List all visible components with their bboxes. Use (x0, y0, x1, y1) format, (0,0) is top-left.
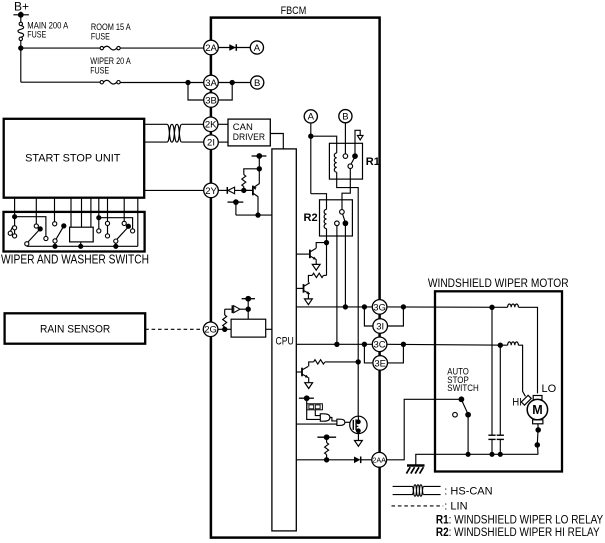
svg-text:2K: 2K (205, 120, 217, 131)
wire Q4 base (296, 371, 302, 373)
level shifter box (2G) (231, 319, 266, 337)
power rail tick (charge pump) (299, 396, 320, 419)
wire 3C/3E loop left (364, 344, 373, 363)
svg-text:3E: 3E (374, 358, 386, 369)
junction (490, 452, 494, 456)
fuse MAIN 200 A (fusible link) (18, 20, 68, 40)
svg-text:HI: HI (512, 397, 522, 409)
relay R2 box (320, 200, 353, 236)
junction (362, 342, 366, 346)
wire node B down to R1 contact (344, 123, 346, 154)
wire CAN-H unit to twist (144, 123, 167, 125)
wire 3G/3I loop right (387, 307, 403, 326)
junction (362, 305, 366, 309)
CPU box (272, 149, 296, 531)
wiper switch blade 2 (53, 224, 66, 246)
svg-text:START STOP UNIT: START STOP UNIT (25, 152, 121, 164)
START STOP UNIT box (4, 119, 145, 198)
resistor R1 (2Y pull-up) (242, 169, 259, 191)
wire Q4 emitter to ground arrow (308, 378, 310, 383)
resistor R5 (2AA) (325, 443, 329, 460)
svg-text:FBCM: FBCM (281, 5, 307, 17)
wire pin 2G to level shifter (218, 328, 231, 330)
wire 2AA to auto stop switch (387, 399, 460, 460)
svg-text:3G: 3G (373, 302, 386, 313)
wire unit to pin 2Y (144, 189, 204, 191)
twisted pair symbol (HS-CAN) (167, 124, 182, 142)
relay R1 common contact (353, 154, 358, 159)
junction (223, 327, 227, 331)
wire pin 2K to CAN driver (218, 123, 228, 125)
chassis ground G1 (406, 466, 424, 474)
wire level shifter to CPU (266, 328, 272, 330)
logic gate G2 (337, 419, 345, 425)
wire choke L2 to HI brush (518, 345, 525, 396)
diode D4 (2AA) (354, 457, 372, 464)
svg-text:R1: R1 (366, 156, 380, 168)
wire A branch to R1 coil (311, 136, 337, 153)
switch contact c2 (13, 226, 17, 230)
pin 3G (372, 300, 387, 315)
ground arrow (MOSFET source) (355, 441, 363, 447)
svg-text:3A: 3A (205, 78, 217, 89)
junction (401, 305, 405, 309)
svg-text:A: A (254, 43, 261, 54)
relay R2 blade (343, 214, 345, 221)
resistor R3 (driver feedback) (308, 273, 326, 282)
junction (257, 167, 261, 171)
wire B+ to main fuse (20, 12, 22, 23)
svg-text:2I: 2I (207, 138, 215, 149)
junction (401, 342, 405, 346)
svg-text:CPU: CPU (276, 335, 294, 347)
wire 3G right to motor choke (387, 306, 508, 308)
wire room fuse to pin 2A (120, 47, 204, 49)
pin 3E (373, 356, 388, 371)
relay R2 NO contact (343, 221, 348, 226)
node B+ (13, 0, 29, 17)
relay R2 NC contact (335, 221, 340, 226)
transistor Q1 (2Y input, PNP) (245, 169, 260, 215)
junction (97, 216, 101, 220)
net wiper drive from CPU (296, 423, 337, 425)
ground arrow (Q2) (312, 264, 320, 270)
intermittent unit box (70, 227, 94, 246)
AUTO STOP SWITCH label (447, 367, 479, 395)
power rail tick (2AA pull-up) (317, 435, 336, 443)
LIN wire (dashed) rain sensor to 2G (145, 328, 203, 330)
diode D2 (2Y input) (227, 187, 234, 194)
junction (79, 244, 83, 248)
switch contacts c9/c10 (105, 221, 109, 238)
wire 3C right to motor choke (387, 343, 508, 346)
svg-text:WIPER AND WASHER SWITCH: WIPER AND WASHER SWITCH (1, 252, 149, 266)
svg-text:RAIN SENSOR: RAIN SENSOR (40, 324, 110, 336)
diode D1 (2A to A) (229, 44, 236, 51)
power rail tick (2Y circuit) (252, 154, 267, 169)
wire pin 2I to CAN driver (218, 141, 228, 143)
wire A to R2 coil (311, 194, 327, 210)
svg-text:M: M (532, 403, 542, 417)
junction (466, 452, 470, 456)
wire pin 2A to diode (218, 47, 250, 49)
MOSFET Q5 (wiper output) (350, 416, 367, 440)
wire Q2 base (296, 253, 310, 255)
wire R2 NO contact to 3G net (344, 226, 346, 307)
junction (325, 458, 329, 462)
junction (242, 188, 246, 192)
pin 2K (203, 117, 218, 132)
power rail tick (below 2Y) (228, 200, 244, 215)
wire 3A/3B parallel loop left (188, 83, 204, 101)
pin 2A (204, 40, 219, 55)
switch contact c4 (34, 224, 38, 228)
wire 3C/3E loop right (387, 344, 403, 363)
junction (309, 134, 313, 138)
wire twist to pin 2I (182, 141, 204, 143)
wire gate1 to gate2 (330, 418, 337, 421)
auto stop switch (453, 397, 471, 454)
RAIN SENSOR box (5, 313, 146, 343)
junction (230, 80, 234, 84)
junction (335, 342, 339, 346)
wire twist to pin 2K (182, 123, 204, 125)
svg-text:3C: 3C (374, 340, 386, 351)
relay R1 fixed contact (343, 154, 348, 159)
junction (256, 213, 260, 217)
svg-text:3I: 3I (376, 321, 384, 332)
parking switch (motor) (535, 424, 540, 455)
relay R1 blade (351, 158, 354, 164)
wire to room fuse (21, 47, 100, 49)
washer switch blade (114, 224, 131, 246)
wire wiper fuse to pin 3A (120, 82, 204, 84)
transistor Q3 (R2 pre-driver) (304, 283, 310, 294)
wire pin 2Y to diode (218, 189, 227, 191)
pin 2AA (372, 452, 387, 467)
svg-text:3B: 3B (205, 95, 217, 106)
CAN driver U1 (228, 119, 270, 146)
fuse WIPER 20 A (90, 56, 131, 84)
junction (498, 343, 502, 347)
switch contact c6 (44, 236, 48, 240)
switch contact c3 (13, 230, 17, 238)
fuse ROOM 15 A (91, 22, 131, 50)
svg-text:FUSE: FUSE (27, 30, 46, 40)
svg-text:R2: R2 (304, 212, 318, 224)
junction (114, 244, 118, 248)
net 3G wire (296, 306, 372, 308)
junction (13, 215, 17, 219)
svg-text:B: B (342, 112, 348, 123)
wiper switch blade 1 (25, 227, 43, 246)
switch contact c11 (122, 221, 126, 225)
wire R1 coil bottom to MOSFET drain (337, 172, 359, 416)
ground arrow (Q4) (305, 383, 313, 389)
junction (246, 307, 250, 311)
svg-text:WINDSHIELD WIPER MOTOR: WINDSHIELD WIPER MOTOR (428, 276, 569, 290)
charge pump box (307, 404, 323, 410)
node A (top) (250, 41, 263, 54)
switch common bus wire (27, 245, 138, 247)
svg-text:: LIN: : LIN (444, 501, 467, 513)
diode D3 (2G clamp) (225, 305, 249, 313)
svg-text:2A: 2A (205, 43, 217, 54)
wire clamp node to level shifter (247, 309, 249, 319)
transistor Q2 (R2 driver) (310, 248, 316, 259)
svg-text:R1: WINDSHIELD WIPER LO RELAY: R1: WINDSHIELD WIPER LO RELAY (436, 514, 604, 526)
wire CAN-L unit to twist (144, 141, 167, 143)
wire R2 NC contact to 3C net (336, 226, 338, 345)
relay R1 NO contact (348, 164, 353, 169)
switch contact c8 (97, 229, 101, 233)
junction (19, 46, 23, 50)
pin 2G (203, 322, 218, 337)
pin 2Y (204, 183, 219, 198)
svg-text:2G: 2G (204, 325, 217, 336)
wires unit to wiper switch (15, 198, 138, 247)
svg-text:LO: LO (542, 383, 557, 395)
net 2AA wire (296, 459, 354, 461)
wire pin 3A to node B (218, 82, 251, 84)
svg-text:: HS-CAN: : HS-CAN (444, 485, 492, 497)
output arrow (wiper feed) (357, 135, 363, 140)
wire to contact c6 (15, 217, 46, 237)
wire main fuse down (20, 41, 22, 83)
svg-text:DRIVER: DRIVER (233, 132, 265, 143)
net 3C wire (296, 343, 372, 345)
wire 3A/3B parallel loop right (218, 83, 232, 101)
motor M1 (521, 395, 547, 424)
WIPER AND WASHER SWITCH box (4, 212, 145, 252)
node A (inner) (304, 110, 317, 123)
ground arrow (Q3) (305, 299, 313, 305)
junction (R2 coil drive) (324, 241, 328, 245)
WINDSHIELD WIPER MOTOR box (435, 291, 562, 471)
wire coil node down to resistor (326, 243, 328, 276)
legend twisted pair symbol (393, 485, 441, 496)
svg-text:R2: WINDSHIELD WIPER HI RELAY: R2: WINDSHIELD WIPER HI RELAY (436, 527, 600, 539)
wire R1 common to output arrow (355, 130, 360, 156)
wire to Q2 collector (316, 243, 326, 249)
choke L1 (LO feed) (508, 304, 519, 307)
wire to wiper fuse (21, 81, 100, 83)
node B (inner) (339, 110, 352, 123)
capacitor C2 (497, 345, 504, 454)
wire gate2 to MOSFET gate (345, 421, 353, 423)
relay R2 common contact (340, 210, 345, 215)
resistor R4 (Q4 collector) (309, 359, 359, 366)
wire R2 coil bottom (326, 229, 328, 243)
pin 2I (204, 135, 219, 150)
wire diode to base node (235, 189, 253, 191)
svg-text:B: B (254, 78, 260, 89)
svg-text:2AA: 2AA (372, 455, 386, 464)
junction (490, 305, 494, 309)
node B (top) (251, 76, 264, 89)
junction (drain net / R4) (356, 360, 360, 364)
wire Q2 emitter to ground arrow (315, 259, 317, 264)
wire CAN driver to CPU (270, 134, 283, 149)
transistor Q4 (R1 driver) (302, 366, 308, 377)
pin 3A (204, 75, 219, 90)
FBCM module box (211, 18, 380, 538)
relay R1 coil (334, 153, 336, 172)
pin 3I (373, 319, 388, 334)
switch contact c5 (53, 222, 57, 226)
wire Q3 base (296, 287, 303, 289)
wire R1 NO contact to R2 common (342, 169, 350, 210)
switch contact c1 (8, 226, 13, 236)
wire motor common to chassis ground (416, 454, 538, 464)
junction (498, 452, 502, 456)
legend LIN dashed wire (392, 505, 444, 507)
svg-text:FUSE: FUSE (90, 66, 109, 76)
svg-text:SWITCH: SWITCH (447, 383, 479, 394)
power rail tick (2G) (242, 296, 255, 309)
wire 3G/3I loop left (364, 307, 373, 326)
wire choke L1 to LO brush (518, 307, 537, 393)
svg-text:2Y: 2Y (205, 186, 217, 197)
wire Q3 emitter to ground arrow (307, 294, 309, 299)
svg-text:FUSE: FUSE (91, 32, 110, 42)
logic gate G1 (320, 414, 330, 421)
pin 3B (204, 93, 219, 108)
wire to contact c12 (99, 218, 133, 229)
relay R2 coil (324, 209, 326, 228)
svg-text:B+: B+ (14, 0, 29, 14)
resistor R2G (2G pull-up) (223, 309, 227, 329)
wire emitter node to CPU (236, 214, 272, 216)
junction (53, 244, 57, 248)
junction (186, 80, 190, 84)
switch contact c12 (131, 229, 135, 233)
pin 3C (372, 337, 387, 352)
junction (343, 305, 347, 309)
capacitor C1 (488, 307, 495, 454)
svg-text:A: A (308, 112, 315, 123)
wire node A down to R2 branch (310, 123, 312, 194)
wire charge pump to gate1 (315, 410, 320, 416)
relay R1 box (329, 143, 362, 179)
choke L2 (HI feed) (508, 342, 519, 345)
